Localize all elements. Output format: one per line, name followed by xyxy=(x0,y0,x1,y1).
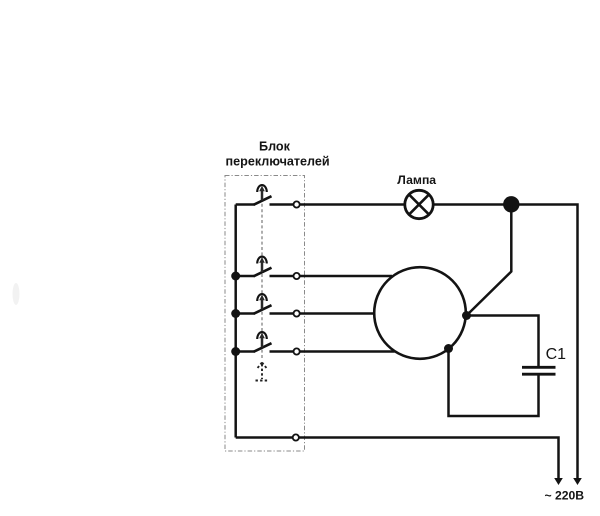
wire: motor terminal to capacitor top xyxy=(467,316,539,367)
wire: switch1 output to lamp xyxy=(300,203,405,206)
mechanical link dashed line xyxy=(261,193,263,360)
switch block dashed-dot enclosure xyxy=(225,176,305,452)
wire: switch2 output to motor xyxy=(299,275,392,278)
switch SA1 xyxy=(236,185,300,208)
wire: junction down then diagonal to motor terminal xyxy=(467,205,512,316)
wire: switch3 output to motor xyxy=(299,312,374,315)
switch SA2 xyxy=(231,257,300,281)
lamp HL circle xyxy=(405,190,433,218)
node: junction dot top right xyxy=(503,196,519,212)
arrow: supply right xyxy=(573,478,582,485)
node: motor right terminal dot xyxy=(462,311,471,320)
switch SA3 xyxy=(231,294,300,318)
wire: left rail vertical xyxy=(234,205,237,438)
arrow: supply left xyxy=(554,478,563,485)
node: motor lower terminal dot xyxy=(444,344,453,353)
wire: bottom horizontal to supply arrow xyxy=(299,438,558,479)
dashed actuation arrow below switches xyxy=(256,363,269,381)
svg-text:Лампа: Лампа xyxy=(397,173,436,187)
capacitor C1 plates xyxy=(522,366,556,369)
svg-text:~ 220В: ~ 220В xyxy=(544,488,584,502)
lamp X cross xyxy=(409,195,429,215)
wire: block bottom output to lower arrow xyxy=(236,436,293,439)
motor M circle xyxy=(374,267,466,359)
svg-text:переключателей: переключателей xyxy=(226,155,330,169)
contact: bottom output open circle xyxy=(293,434,299,440)
svg-text:Блок: Блок xyxy=(259,140,291,154)
wire: top right rail from lamp to supply arrow xyxy=(433,205,577,479)
wire: capacitor bottom loop to motor lower terminal xyxy=(449,349,539,417)
faint scan artifact left margin xyxy=(13,283,20,305)
switch SA4 xyxy=(231,332,300,356)
svg-text:C1: C1 xyxy=(546,346,567,363)
wire: switch4 output to motor xyxy=(299,350,394,353)
